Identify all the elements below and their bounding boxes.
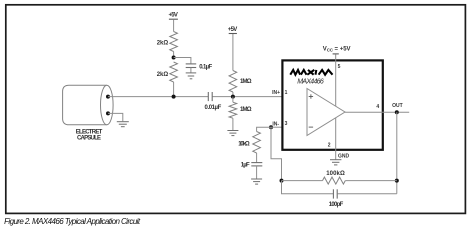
electret capsule label bbox=[76, 129, 103, 141]
electret capsule right face bbox=[101, 85, 114, 125]
ground G3 (1M lower) bbox=[227, 131, 238, 136]
wire +5V to R1 bbox=[173, 20, 175, 32]
MAXIM logo bbox=[290, 70, 332, 75]
svg-text:1µF: 1µF bbox=[241, 163, 250, 169]
wire 100pF branch left bbox=[282, 181, 334, 194]
svg-text:OUT: OUT bbox=[392, 103, 403, 109]
supply +5V no.2 bbox=[228, 27, 238, 34]
node feedback left junction bbox=[280, 179, 284, 183]
svg-text:IN-: IN- bbox=[272, 121, 279, 127]
capacitor C4 100pF bbox=[333, 189, 337, 198]
svg-text:5: 5 bbox=[338, 64, 341, 70]
svg-text:0.1µF: 0.1µF bbox=[199, 64, 212, 70]
svg-text:ELECTRET: ELECTRET bbox=[76, 129, 103, 135]
wire main signal (capsule to 0.01uF cap) bbox=[108, 96, 208, 98]
svg-text:+5V: +5V bbox=[228, 27, 238, 33]
wire IN- to 10k bbox=[257, 127, 271, 131]
resistor R2 2k (lower) bbox=[170, 62, 178, 82]
resistor R1 2k (upper) bbox=[170, 32, 178, 52]
resistor R3 1M (upper) bbox=[229, 71, 237, 93]
svg-text:IN+: IN+ bbox=[272, 90, 280, 96]
node B2 junction bbox=[231, 95, 235, 99]
node B junction bbox=[172, 95, 176, 99]
ground G4 (1uF) bbox=[251, 179, 262, 184]
wire R3 to node B2 bbox=[232, 92, 234, 97]
minus input mark bbox=[309, 126, 313, 128]
ground G2 (0.1uF) bbox=[186, 73, 197, 79]
wire main signal (0.01uF cap to op-amp pin 1) bbox=[213, 96, 283, 98]
wire node A to C1 bbox=[174, 58, 191, 64]
wire IN- to pin 3 bbox=[271, 126, 282, 128]
wire R2 to main line bbox=[173, 82, 175, 97]
wire OUT down to feedback bbox=[396, 112, 398, 194]
svg-text:2kΩ: 2kΩ bbox=[157, 40, 169, 46]
node OUT junction bbox=[395, 110, 399, 114]
wire 100pF branch right bbox=[337, 193, 396, 195]
capacitor C3 1uF bbox=[251, 163, 262, 166]
svg-text:1MΩ: 1MΩ bbox=[240, 107, 252, 113]
electret capsule body bbox=[63, 85, 107, 125]
svg-text:Figure 2. MAX4466 Typical Appl: Figure 2. MAX4466 Typical Application Ci… bbox=[4, 217, 141, 226]
capacitor C2 0.01uF (coupling) bbox=[208, 92, 212, 101]
svg-text:GND: GND bbox=[338, 154, 350, 160]
wire IN- down jog to feedback node bbox=[271, 127, 282, 180]
wire Vcc to pin 5 bbox=[335, 54, 337, 60]
wire R4 to ground bbox=[232, 118, 234, 130]
svg-text:+5V: +5V bbox=[168, 13, 178, 19]
svg-text:4: 4 bbox=[376, 104, 379, 110]
svg-text:CAPSULE: CAPSULE bbox=[77, 136, 101, 142]
svg-text:0.01µF: 0.01µF bbox=[205, 105, 222, 111]
wire C1 to ground bbox=[190, 68, 192, 73]
svg-text:100pF: 100pF bbox=[329, 202, 344, 208]
wire capsule bottom to ground bbox=[108, 113, 123, 121]
supply +5V no.1 bbox=[168, 13, 178, 20]
svg-text:1: 1 bbox=[285, 90, 288, 96]
svg-text:2kΩ: 2kΩ bbox=[157, 72, 169, 78]
ground G1 (capsule) bbox=[117, 122, 129, 127]
wire R1 to node A bbox=[173, 52, 175, 58]
pin 5 internal supply line bbox=[335, 60, 337, 149]
capsule terminal pin top bbox=[106, 95, 110, 99]
svg-text:2: 2 bbox=[328, 143, 331, 149]
resistor R5 10k bbox=[253, 132, 261, 154]
svg-text:1MΩ: 1MΩ bbox=[240, 79, 252, 85]
node feedback right junction bbox=[395, 179, 399, 183]
svg-text:100kΩ: 100kΩ bbox=[326, 171, 345, 177]
wire feedback right segment bbox=[345, 180, 397, 182]
svg-text:3: 3 bbox=[285, 121, 288, 127]
svg-text:VCC = +5V: VCC = +5V bbox=[323, 47, 351, 53]
capacitor C1 0.1uF bbox=[186, 64, 197, 68]
wire +5V to R3 bbox=[232, 34, 234, 71]
wire node B2 to R4 bbox=[232, 97, 234, 103]
wire feedback left segment bbox=[282, 180, 323, 182]
wire R5 to C3 bbox=[256, 153, 258, 162]
capsule terminal pin bottom bbox=[106, 111, 110, 115]
node IN- junction bbox=[269, 125, 273, 129]
resistor R4 1M (lower) bbox=[229, 102, 237, 118]
wire C3 to ground bbox=[256, 166, 258, 179]
svg-text:10kΩ: 10kΩ bbox=[238, 141, 250, 147]
wire output pin 4 to OUT bbox=[345, 111, 409, 113]
Vcc supply bar bbox=[333, 53, 339, 55]
op-amp triangle bbox=[307, 89, 345, 136]
svg-text:MAX4466: MAX4466 bbox=[297, 79, 324, 86]
ground G5 (GND pin) bbox=[330, 160, 341, 165]
plus input mark bbox=[309, 94, 313, 98]
wire pin 2 to ground bbox=[335, 149, 337, 159]
resistor R6 100k (feedback) bbox=[323, 177, 346, 184]
op-amp U1 box bbox=[282, 60, 382, 149]
node A junction bbox=[172, 56, 176, 60]
